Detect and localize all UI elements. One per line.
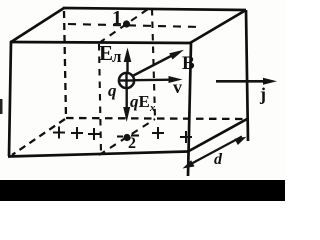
label point 1 xyxy=(112,7,122,30)
top face depth dashed midline through point 1 xyxy=(99,7,151,43)
box hidden bottom-left depth edge xyxy=(12,119,65,155)
bottom black bar xyxy=(0,180,285,201)
point 1 dot xyxy=(123,20,130,27)
j arrow (current density, right of box) xyxy=(216,78,277,85)
E_l arrow (up from charge) xyxy=(124,48,132,74)
box hidden back bottom edge xyxy=(66,118,246,119)
charge plus vertical bar xyxy=(125,72,127,89)
B arrow (diagonal up-right from charge) xyxy=(133,50,185,76)
left edge scan smudge xyxy=(0,99,3,114)
bottom face depth dashed midline through point 2 xyxy=(99,119,155,155)
plus charge sign 4 on bottom face xyxy=(152,127,164,139)
box front bottom edge xyxy=(8,152,188,157)
box top-left depth edge xyxy=(11,8,64,42)
bottom face short dash right of point 2 xyxy=(131,134,139,136)
box back right edge (with d extension below) xyxy=(246,10,248,141)
label E_l subscript xyxy=(112,47,122,67)
label E_l (Hall field) xyxy=(99,41,113,66)
box bottom-right depth edge xyxy=(188,119,247,152)
charge plus horizontal bar xyxy=(119,79,135,81)
label q (charge) xyxy=(108,81,117,101)
box hidden back-left vertical edge xyxy=(64,11,66,118)
charge circle (plus charge symbol) xyxy=(119,73,134,88)
point 2 dot xyxy=(123,134,130,141)
d dimension double arrow xyxy=(183,137,247,169)
plus charge sign 3 on bottom face xyxy=(88,128,100,140)
box top-right depth edge xyxy=(190,10,246,43)
back face vertical dashed midline xyxy=(152,9,155,118)
box front left edge xyxy=(9,41,11,156)
box top back edge xyxy=(63,8,246,10)
box front right edge (with d extension below) xyxy=(188,43,191,176)
plus charge sign 2 on bottom face xyxy=(71,127,83,139)
label j (current density) xyxy=(260,84,266,105)
label B (magnetic field) xyxy=(182,53,195,75)
v arrow (right from charge) xyxy=(134,76,183,83)
plus charge sign 5 on bottom face xyxy=(180,131,192,143)
qEx arrow (down from charge) xyxy=(123,88,130,122)
label point 2 xyxy=(128,135,136,153)
label d (thickness) xyxy=(214,151,222,169)
label qEx (electric force) xyxy=(130,92,155,114)
plus charge sign 1 on bottom face xyxy=(53,127,65,139)
box front top edge xyxy=(10,42,191,43)
top face minus-row dashed midline xyxy=(68,24,201,27)
front face vertical dashed midline xyxy=(99,44,101,153)
bottom face short dash left of point 2 xyxy=(117,135,123,137)
label v (velocity) xyxy=(173,77,182,98)
